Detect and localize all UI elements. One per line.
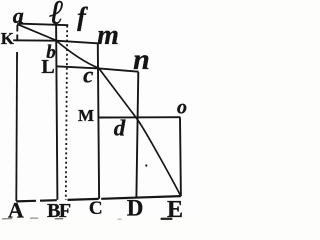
svg-text:A: A xyxy=(8,198,24,220)
speck dot xyxy=(145,164,147,166)
wire horizontal K-b-m xyxy=(13,40,98,43)
stray marks: cut-off next text line at bottom edge xyxy=(3,218,173,220)
svg-text:L: L xyxy=(41,56,54,78)
vertical at A: solid lower part xyxy=(15,60,18,201)
wire top horizontal a-l-f xyxy=(17,24,68,26)
curve a-b-c-d-E xyxy=(17,24,181,196)
vertical at E (o ordinate) xyxy=(179,118,182,197)
svg-text:a: a xyxy=(13,3,24,28)
svg-text:ℓ: ℓ xyxy=(49,0,64,32)
svg-text:K: K xyxy=(1,29,15,48)
svg-text:M: M xyxy=(78,106,94,125)
svg-text:C: C xyxy=(89,198,103,219)
vertical at F dotted xyxy=(66,26,67,201)
vertical at C (m ordinate) xyxy=(98,44,99,199)
vertical at D (n ordinate) xyxy=(136,72,138,197)
svg-text:E: E xyxy=(167,197,183,220)
svg-text:d: d xyxy=(114,116,126,141)
svg-text:n: n xyxy=(133,43,150,76)
baseline A-E dashed segments xyxy=(16,200,36,203)
vertical at A: dashed upper part xyxy=(16,25,18,32)
vertical at B (l ordinate) xyxy=(56,25,57,200)
svg-text:D: D xyxy=(127,196,144,220)
wire horizontal M-d-o xyxy=(99,116,180,118)
svg-text:F: F xyxy=(59,200,71,220)
wire horizontal L-c-n xyxy=(56,66,139,71)
svg-text:m: m xyxy=(97,20,119,51)
svg-text:c: c xyxy=(83,62,93,87)
svg-text:o: o xyxy=(177,97,187,119)
